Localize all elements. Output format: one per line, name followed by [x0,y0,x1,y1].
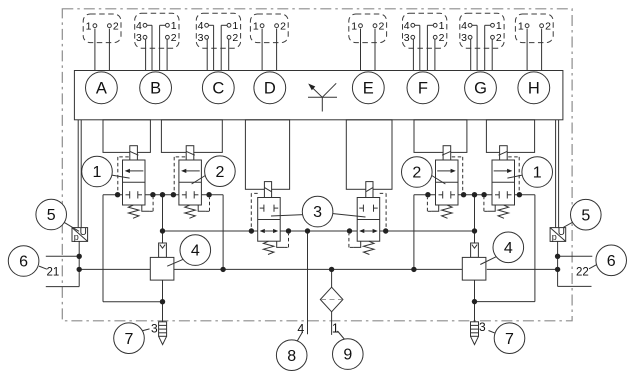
svg-text:1: 1 [171,20,177,32]
item circle 5 (right) [564,222,574,227]
svg-text:F: F [418,79,428,97]
manifold block 1 [103,120,150,153]
manifold block 3 [245,120,289,190]
svg-text:U: U [80,227,87,238]
item circle 8 [297,332,302,341]
svg-text:4: 4 [461,20,467,32]
svg-text:5: 5 [581,207,590,224]
svg-text:2: 2 [412,165,421,182]
svg-text:4: 4 [504,240,513,257]
port box A (working ports 1,2) with lines to manifold [83,14,121,43]
silencer right (port 3) [471,322,479,337]
svg-text:3: 3 [198,32,204,44]
wire: main rail y=269.4 segment 2 [174,268,463,270]
item circle 2 (left) [192,176,206,185]
svg-text:4: 4 [297,322,304,336]
svg-text:D: D [264,79,276,97]
exhaust vent symbol with arrow [321,97,323,111]
station circle G [465,72,497,104]
wire: right check-valve drop x=474.5 [474,195,476,243]
svg-text:U: U [558,227,565,238]
svg-text:9: 9 [343,347,352,364]
item circle 6 (right) [589,265,596,269]
solenoid valve V1 right (item 1) [484,146,519,219]
wire: port 22 upper stub [558,255,593,257]
item circle 3 (center) [271,215,303,216]
wire: right silencer drop [474,280,476,322]
item circle 6 (left) [39,266,47,269]
svg-text:1: 1 [232,20,238,32]
solenoid valve V2 right (item 2) [427,146,462,219]
svg-text:4: 4 [136,20,142,32]
svg-text:1: 1 [496,20,502,32]
svg-text:3: 3 [404,32,410,44]
svg-text:1: 1 [253,21,259,33]
svg-text:2: 2 [171,32,177,44]
check valve + regulator box 4 right [471,243,479,257]
item circle 9 [338,331,346,341]
svg-text:2: 2 [232,32,238,44]
svg-text:2: 2 [215,164,224,181]
svg-text:C: C [212,79,224,97]
svg-text:1: 1 [86,21,92,33]
port box H (working ports 1,2) with lines to manifold [515,14,553,43]
wire: pilot supply line 4 (x=307.5) [307,231,309,334]
pressure sensor p/U left [72,228,88,242]
wire: port 21 lower stub [46,286,79,288]
wire: left check-valve drop x=162.5 [162,195,164,243]
pilot valve V3 right (item 3) [349,182,386,255]
twin signal lines to right p/U sensor [555,120,557,228]
wire: right sensor drop x=557.6 [557,241,559,286]
item circle 2 (right) [432,176,446,185]
manifold block 4 [346,120,392,190]
svg-text:5: 5 [47,207,56,224]
manifold block 5 [414,120,467,153]
manifold block 6 [486,120,534,153]
svg-text:p: p [74,232,79,242]
pressure sensor p/U right [550,228,566,242]
wire: center pilot bus y=231 [163,230,475,232]
svg-text:3: 3 [313,204,322,221]
svg-text:2: 2 [378,21,384,33]
wire: main rail y=269.4 segment 1 [79,268,150,270]
svg-text:7: 7 [505,331,514,348]
svg-text:H: H [528,79,540,97]
check valve + regulator box 4 left [159,243,167,257]
svg-text:A: A [96,79,107,97]
svg-text:1: 1 [518,21,524,33]
port box G (ports 4,1,3,2) with lines to manifold [460,13,504,48]
svg-text:2: 2 [439,32,445,44]
wire: right bottom link y=301.6 [475,301,535,303]
svg-text:3: 3 [461,32,467,44]
svg-text:4: 4 [191,243,200,260]
wire: main rail y=269.4 segment 3 [487,268,558,270]
enclosure chain-line border (valve terminal outline) [62,9,572,321]
svg-text:6: 6 [19,254,28,271]
svg-text:2: 2 [280,21,286,33]
item circle 1 (right) [507,175,523,178]
wire: left silencer drop [162,280,164,322]
wire: left elbow to rail x=223.1 [222,195,224,270]
svg-text:7: 7 [125,331,134,348]
item circle 4 (right) [480,257,496,265]
port box F (ports 4,1,3,2) with lines to manifold [403,13,447,48]
port box C (ports 4,1,3,2) with lines to manifold [196,13,240,48]
item circle 7 (left) [142,329,150,331]
item circle 5 (left) [64,222,79,231]
svg-text:3: 3 [479,320,486,334]
silencer left (port 3) [159,322,167,337]
station circle E [352,72,384,104]
solenoid valve V1 left (item 1) [123,160,146,205]
item circle 4 (left) [167,259,183,266]
svg-text:1: 1 [533,165,542,182]
junction dots [115,192,120,197]
wire: supply line 1 to filter [331,269,333,287]
svg-text:22: 22 [576,267,589,279]
port box B (ports 4,1,3,2) with lines to manifold [135,13,179,48]
filter diamond (port 1 supply) [320,287,343,312]
svg-text:1: 1 [93,164,102,181]
svg-text:2: 2 [496,32,502,44]
svg-text:4: 4 [404,20,410,32]
station circle H [518,72,550,104]
manifold band rectangle [74,71,563,120]
station circle C [202,72,234,104]
solenoid valve V2 left (item 2) [179,160,202,205]
svg-text:2: 2 [113,21,119,33]
svg-text:2: 2 [545,21,551,33]
wire: left down-leg x=103 [102,195,104,302]
svg-text:E: E [363,79,374,97]
port box E (working ports 1,2) with lines to manifold [349,14,387,43]
station circle F [407,72,439,104]
svg-text:G: G [474,79,487,97]
twin signal lines to left p/U sensor [77,120,79,228]
wire: left bottom link y=301.7 [103,301,163,303]
svg-text:6: 6 [607,253,616,270]
svg-text:p: p [552,232,557,242]
wire: right down-leg x=534.9 [534,195,536,302]
wire: left sensor drop x=79.2 [78,241,80,286]
wire: port 21 upper stub [46,255,79,257]
svg-text:1: 1 [351,21,357,33]
svg-text:1: 1 [332,321,339,335]
wire: right valve port line [414,194,535,196]
port box D (working ports 1,2) with lines to manifold [250,14,288,43]
wire: port 22 lower stub [558,285,592,287]
station circle A [86,72,118,104]
item circle 7 (right) [489,331,497,334]
station circle B [140,72,172,104]
svg-text:8: 8 [287,348,296,365]
item circle 1 (left) [110,175,129,178]
svg-text:3: 3 [151,322,158,336]
wire: left valve port line [103,194,223,196]
svg-text:1: 1 [439,20,445,32]
svg-text:4: 4 [198,20,204,32]
wire: right elbow to rail x=413.9 [413,195,415,270]
station circle D [254,72,286,104]
svg-text:3: 3 [136,32,142,44]
svg-text:B: B [150,79,161,97]
svg-text:21: 21 [47,266,60,278]
manifold block 2 [161,120,222,153]
pilot valve V3 left (item 3) [258,198,281,242]
